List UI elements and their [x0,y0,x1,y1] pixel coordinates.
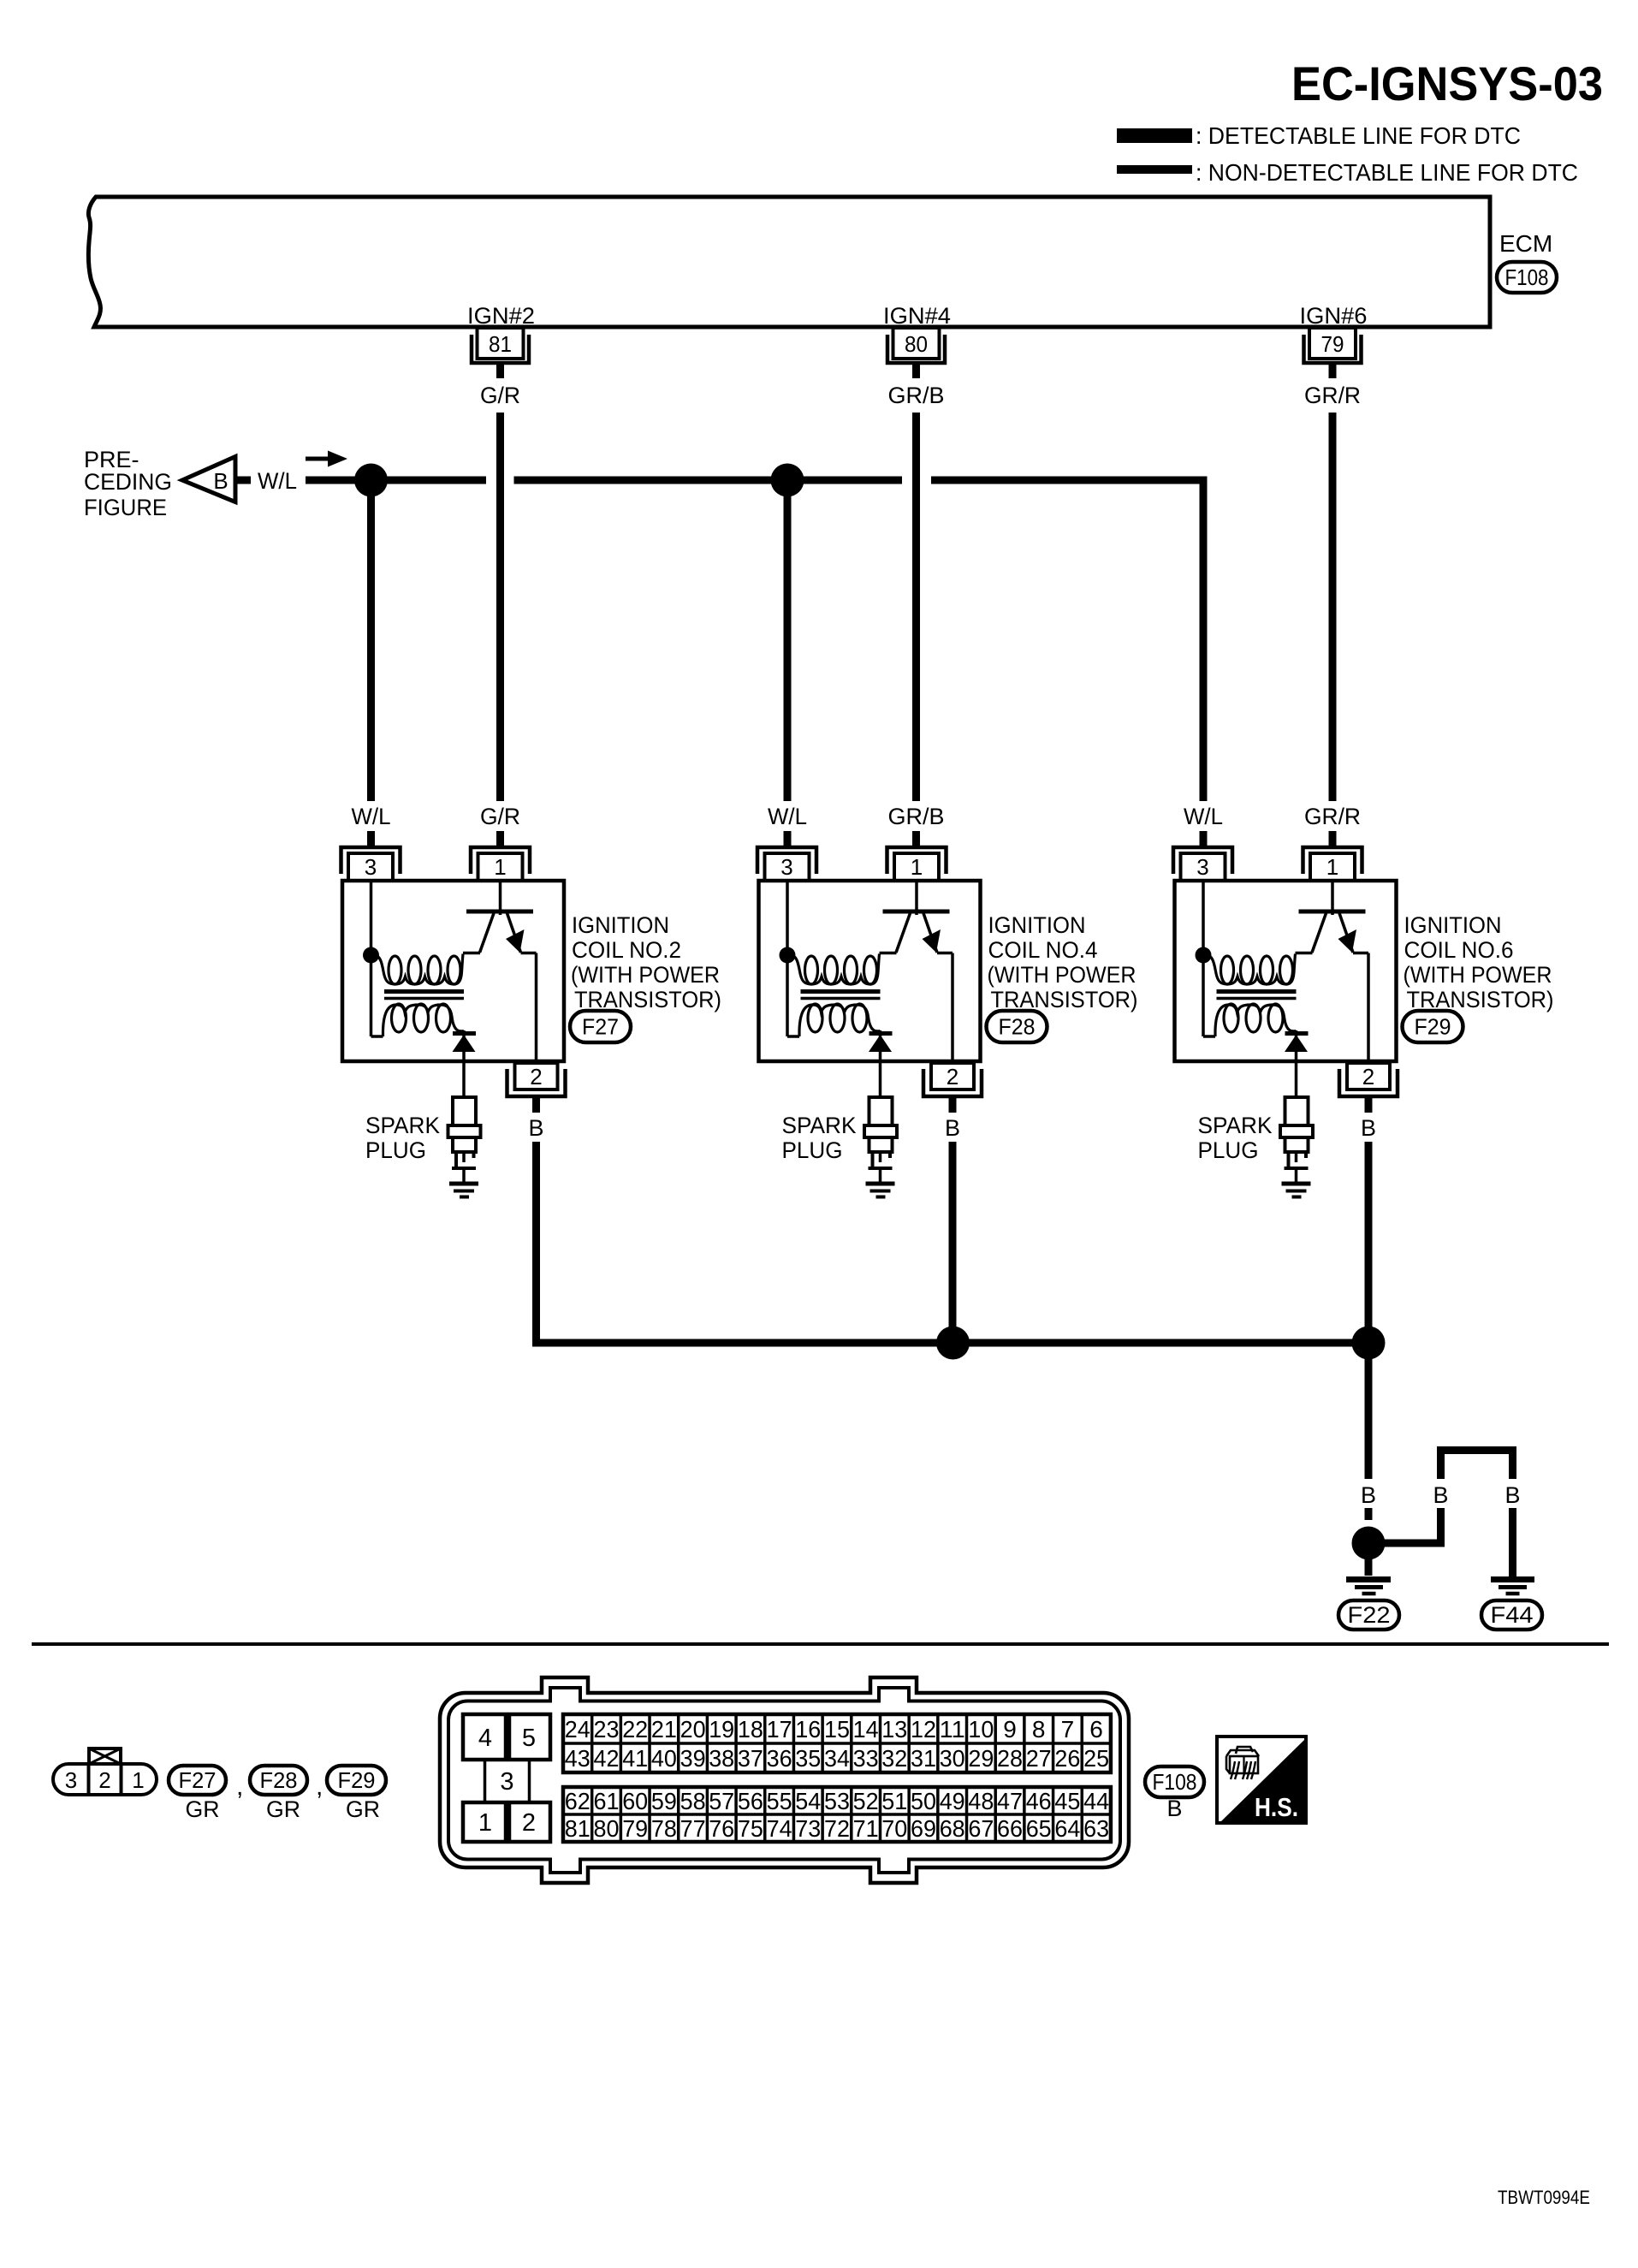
svg-text:79: 79 [1321,331,1344,357]
svg-text:(WITH POWER: (WITH POWER [988,962,1137,988]
svg-text:W/L: W/L [258,468,297,494]
svg-text:66: 66 [997,1815,1023,1842]
svg-text:21: 21 [651,1716,677,1743]
svg-text:GR/R: GR/R [1304,804,1361,829]
svg-text:75: 75 [738,1815,763,1842]
svg-text:52: 52 [853,1788,879,1814]
svg-text:PLUG: PLUG [782,1137,843,1163]
svg-text:3: 3 [780,854,792,880]
svg-text:IGNITION: IGNITION [572,912,669,938]
svg-text:W/L: W/L [1184,804,1223,829]
svg-text:38: 38 [709,1745,734,1772]
svg-text:67: 67 [968,1815,994,1842]
svg-text:B: B [1504,1482,1520,1508]
svg-text:13: 13 [881,1716,907,1743]
svg-text:W/L: W/L [768,804,807,829]
svg-text:76: 76 [709,1815,734,1842]
svg-text:2: 2 [947,1064,958,1089]
svg-text:B: B [945,1115,960,1141]
svg-text:: NON-DETECTABLE LINE FOR DTC: : NON-DETECTABLE LINE FOR DTC [1196,159,1578,186]
svg-text:F108: F108 [1153,1769,1197,1795]
svg-text:2: 2 [1362,1064,1374,1089]
svg-text:3: 3 [500,1768,513,1796]
svg-text:73: 73 [795,1815,821,1842]
svg-text:6: 6 [1089,1716,1103,1743]
svg-text:37: 37 [738,1745,763,1772]
svg-text:TRANSISTOR): TRANSISTOR) [574,987,721,1012]
svg-text:3: 3 [365,854,377,880]
svg-text:1: 1 [132,1767,144,1793]
svg-text:B: B [1166,1796,1182,1821]
svg-text:27: 27 [1026,1745,1052,1772]
svg-text:8: 8 [1032,1716,1046,1743]
svg-text:GR: GR [346,1796,380,1822]
svg-text:IGNITION: IGNITION [988,912,1086,938]
svg-text:GR/B: GR/B [888,804,945,829]
svg-text:28: 28 [997,1745,1023,1772]
svg-text:72: 72 [824,1815,850,1842]
svg-text:CEDING: CEDING [84,469,172,495]
svg-text:H.S.: H.S. [1255,1792,1298,1822]
svg-text:79: 79 [622,1815,648,1842]
svg-text:23: 23 [594,1716,620,1743]
svg-text:: DETECTABLE LINE FOR DTC: : DETECTABLE LINE FOR DTC [1196,122,1521,149]
svg-text:F28: F28 [999,1014,1036,1040]
svg-text:F28: F28 [260,1767,298,1793]
svg-text:PLUG: PLUG [365,1137,426,1163]
svg-text:17: 17 [767,1716,792,1743]
svg-text:IGN#2: IGN#2 [467,303,535,329]
svg-text:TBWT0994E: TBWT0994E [1498,2187,1590,2208]
svg-text:74: 74 [767,1815,792,1842]
svg-text:,: , [236,1772,243,1801]
svg-text:F108: F108 [1505,264,1549,290]
svg-text:,: , [316,1772,323,1801]
svg-text:77: 77 [680,1815,706,1842]
svg-text:TRANSISTOR): TRANSISTOR) [1407,987,1554,1012]
svg-text:56: 56 [738,1788,763,1814]
svg-text:51: 51 [881,1788,907,1814]
svg-text:36: 36 [767,1745,792,1772]
svg-text:50: 50 [911,1788,936,1814]
svg-text:1: 1 [478,1809,492,1837]
svg-text:COIL NO.4: COIL NO.4 [988,937,1098,963]
svg-text:1: 1 [1326,854,1338,880]
svg-text:4: 4 [478,1725,492,1752]
svg-text:1: 1 [494,854,506,880]
svg-text:20: 20 [680,1716,706,1743]
svg-text:44: 44 [1083,1788,1109,1814]
svg-text:F44: F44 [1491,1602,1534,1628]
svg-text:25: 25 [1083,1745,1109,1772]
svg-text:59: 59 [651,1788,677,1814]
svg-text:7: 7 [1061,1716,1075,1743]
svg-text:78: 78 [651,1815,677,1842]
svg-text:F27: F27 [582,1014,619,1040]
svg-text:B: B [1361,1115,1376,1141]
svg-text:33: 33 [853,1745,879,1772]
svg-text:FIGURE: FIGURE [84,495,167,520]
svg-text:68: 68 [940,1815,965,1842]
svg-text:W/L: W/L [352,804,391,829]
svg-text:64: 64 [1054,1815,1080,1842]
svg-text:35: 35 [795,1745,821,1772]
svg-text:TRANSISTOR): TRANSISTOR) [991,987,1138,1012]
svg-text:GR: GR [186,1796,220,1822]
svg-text:B: B [1361,1482,1376,1508]
svg-text:62: 62 [565,1788,591,1814]
svg-text:COIL NO.2: COIL NO.2 [572,937,681,963]
svg-text:32: 32 [881,1745,907,1772]
svg-text:ECM: ECM [1499,230,1552,257]
svg-text:81: 81 [565,1815,591,1842]
svg-text:81: 81 [489,331,512,357]
svg-text:41: 41 [622,1745,648,1772]
svg-text:58: 58 [680,1788,706,1814]
svg-text:53: 53 [824,1788,850,1814]
svg-text:5: 5 [522,1725,536,1752]
svg-text:49: 49 [940,1788,965,1814]
svg-text:F29: F29 [1415,1014,1451,1040]
svg-text:43: 43 [565,1745,591,1772]
svg-text:19: 19 [709,1716,734,1743]
svg-text:61: 61 [594,1788,620,1814]
svg-text:34: 34 [824,1745,850,1772]
svg-text:B: B [528,1115,543,1141]
svg-text:47: 47 [997,1788,1023,1814]
svg-text:IGN#6: IGN#6 [1300,303,1368,329]
svg-text:12: 12 [911,1716,936,1743]
svg-text:IGN#4: IGN#4 [883,303,951,329]
svg-text:F29: F29 [338,1767,376,1793]
svg-text:55: 55 [767,1788,792,1814]
svg-text:14: 14 [853,1716,879,1743]
svg-text:65: 65 [1026,1815,1052,1842]
svg-text:63: 63 [1083,1815,1109,1842]
svg-text:G/R: G/R [480,804,520,829]
svg-text:57: 57 [709,1788,734,1814]
svg-text:45: 45 [1054,1788,1080,1814]
svg-text:54: 54 [795,1788,821,1814]
svg-text:COIL NO.6: COIL NO.6 [1404,937,1514,963]
svg-text:IGNITION: IGNITION [1404,912,1502,938]
svg-text:46: 46 [1026,1788,1052,1814]
svg-text:F22: F22 [1348,1602,1391,1628]
svg-text:GR/R: GR/R [1304,383,1361,408]
svg-text:40: 40 [651,1745,677,1772]
svg-text:PLUG: PLUG [1198,1137,1259,1163]
svg-text:69: 69 [911,1815,936,1842]
svg-text:GR/B: GR/B [888,383,945,408]
svg-text:30: 30 [940,1745,965,1772]
svg-text:26: 26 [1054,1745,1080,1772]
svg-text:G/R: G/R [480,383,520,408]
svg-text:15: 15 [824,1716,850,1743]
svg-text:SPARK: SPARK [1198,1113,1273,1138]
svg-text:71: 71 [853,1815,879,1842]
svg-text:2: 2 [530,1064,542,1089]
svg-text:3: 3 [65,1767,77,1793]
svg-text:60: 60 [622,1788,648,1814]
svg-text:(WITH POWER: (WITH POWER [571,962,720,988]
svg-text:F27: F27 [179,1767,217,1793]
svg-text:SPARK: SPARK [365,1113,440,1138]
svg-text:29: 29 [968,1745,994,1772]
svg-text:9: 9 [1003,1716,1017,1743]
svg-text:80: 80 [594,1815,620,1842]
svg-text:24: 24 [565,1716,591,1743]
svg-text:EC-IGNSYS-03: EC-IGNSYS-03 [1291,56,1603,110]
svg-text:70: 70 [881,1815,907,1842]
svg-text:(WITH POWER: (WITH POWER [1404,962,1552,988]
svg-text:11: 11 [940,1716,965,1743]
svg-text:39: 39 [680,1745,706,1772]
svg-text:42: 42 [594,1745,620,1772]
svg-text:48: 48 [968,1788,994,1814]
svg-text:B: B [1433,1482,1448,1508]
svg-text:3: 3 [1196,854,1208,880]
svg-text:2: 2 [522,1809,536,1837]
svg-text:18: 18 [738,1716,763,1743]
svg-text:22: 22 [622,1716,648,1743]
svg-text:16: 16 [795,1716,821,1743]
svg-text:31: 31 [911,1745,936,1772]
svg-text:GR: GR [266,1796,300,1822]
svg-text:2: 2 [98,1767,110,1793]
svg-text:SPARK: SPARK [782,1113,857,1138]
svg-text:B: B [213,468,228,494]
svg-text:80: 80 [905,331,928,357]
svg-text:10: 10 [968,1716,994,1743]
svg-text:1: 1 [911,854,923,880]
